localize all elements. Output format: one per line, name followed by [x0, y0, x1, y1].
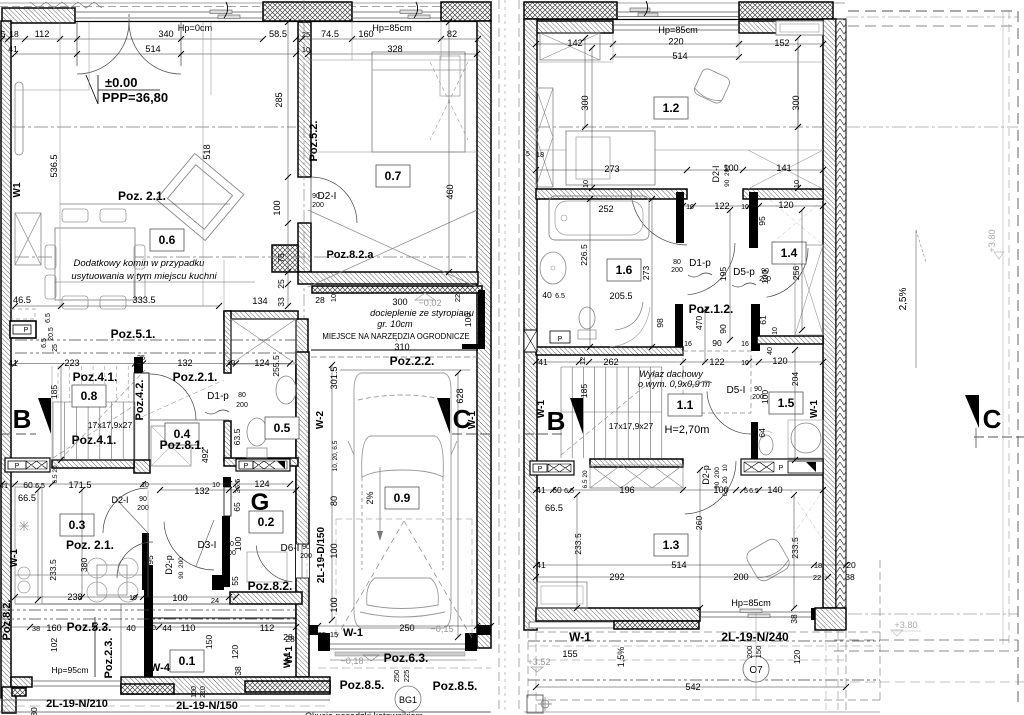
svg-text:6.5: 6.5: [41, 338, 48, 348]
svg-text:200: 200: [745, 646, 754, 659]
bath 1.6 right wall lower bar: [675, 304, 683, 355]
svg-text:100: 100: [172, 593, 187, 603]
svg-text:98: 98: [655, 318, 665, 328]
svg-text:132: 132: [177, 358, 192, 368]
room 0.7 dim line 460: [448, 22, 450, 272]
svg-text:Poz. 2.1.: Poz. 2.1.: [118, 189, 166, 203]
svg-text:41: 41: [8, 44, 18, 54]
right exterior wall of left building: [477, 21, 491, 648]
svg-text:0.8: 0.8: [81, 389, 98, 403]
svg-text:90: 90: [712, 338, 722, 348]
roof plan dashed outline right side: [848, 10, 1018, 12]
svg-text:141: 141: [776, 163, 791, 173]
roof edge lines above right plan: [524, 2, 845, 4]
dim 542: [536, 686, 846, 688]
room 0.1 left wall W-4: [144, 565, 153, 677]
svg-text:492: 492: [200, 449, 210, 464]
svg-text:233.5: 233.5: [48, 559, 58, 581]
svg-text:255.5: 255.5: [271, 355, 281, 377]
svg-text:223: 223: [64, 358, 79, 368]
dim row y206 right: [683, 205, 823, 207]
svg-text:90 200: 90 200: [724, 165, 731, 187]
svg-text:22: 22: [453, 294, 462, 302]
bath 0.5 toilet: [247, 418, 267, 446]
door D1-p threshold: [150, 419, 229, 421]
stair dashed diagonals: [53, 405, 135, 458]
svg-text:110: 110: [181, 623, 196, 633]
svg-text:BG1: BG1: [399, 695, 417, 705]
door D2-I kitchen arc: [103, 488, 148, 533]
top wall window zone 2: [352, 11, 441, 13]
X marks right wall room 1.2: [748, 150, 823, 189]
tool area crosshatch top band: [312, 286, 482, 293]
svg-text:120: 120: [778, 200, 793, 210]
door D2-I opening room 1.2: [631, 189, 687, 245]
bottom left small box right plan: [527, 695, 543, 713]
svg-text:120: 120: [230, 645, 240, 660]
roof bottom right dashed region: [848, 613, 1018, 615]
svg-text:10: 10: [722, 464, 729, 472]
kitchen counter 0.3 left: [15, 487, 42, 604]
bath 0.5 left wall upper: [224, 311, 231, 373]
svg-text:124: 124: [254, 358, 269, 368]
car in garage: [348, 373, 457, 628]
section axis y127 left plan: [11, 126, 296, 128]
window sill box room 1.2 right: [776, 21, 823, 35]
svg-text:112: 112: [260, 623, 275, 633]
living room vertical dim lines: [59, 22, 61, 306]
svg-text:60: 60: [552, 485, 562, 495]
svg-text:W1: W1: [12, 182, 23, 197]
garage floor slope arrow: [379, 467, 381, 538]
svg-text:10: 10: [148, 625, 156, 632]
svg-text:514: 514: [671, 560, 686, 570]
toilet 1.5: [759, 435, 773, 455]
stair hall bottom wall: [590, 459, 683, 467]
svg-text:D2-I: D2-I: [711, 165, 721, 182]
svg-text:20: 20: [582, 470, 589, 478]
svg-text:2%: 2%: [365, 491, 375, 504]
bath 0.5 left wall lower: [224, 421, 231, 461]
bottom-left corner step: [2, 687, 16, 713]
svg-text:2,5%: 2,5%: [898, 287, 909, 310]
svg-text:W-1: W-1: [282, 652, 292, 668]
svg-text:10: 10: [212, 482, 220, 489]
svg-text:−0,15: −0,15: [430, 624, 453, 634]
bath 0.5 sink oval: [276, 376, 296, 404]
svg-text:D5-p: D5-p: [733, 267, 755, 278]
svg-text:0.7: 0.7: [385, 169, 402, 183]
svg-text:30: 30: [29, 707, 39, 715]
svg-text:Poz.1.2.: Poz.1.2.: [689, 302, 734, 316]
Poz.2.3 left wall thin: [94, 617, 96, 677]
svg-text:220: 220: [668, 37, 683, 47]
dims left mid row: [15, 305, 219, 307]
top wall crosshatch block 1: [263, 2, 352, 21]
svg-text:64: 64: [757, 428, 767, 438]
room box 1.4: [772, 242, 806, 264]
right plan 1.3 dim verticals: [576, 495, 578, 608]
dim row y565: [536, 564, 846, 566]
svg-text:200: 200: [733, 572, 748, 582]
right plan inner top wall right: [739, 21, 823, 33]
dim row under 1.2: [536, 169, 823, 171]
stairs dashed diagonal right plan: [561, 372, 662, 455]
svg-text:Poz.4.2.: Poz.4.2.: [134, 380, 146, 421]
room box 1.6: [607, 259, 641, 281]
svg-text:185: 185: [579, 384, 589, 399]
svg-text:10: 10: [581, 180, 590, 188]
bath 0.5 top wall: [224, 311, 298, 319]
svg-text:Hp=85cm: Hp=85cm: [731, 598, 771, 608]
right plan right exterior wall: [823, 19, 836, 608]
wall band W-1 with windows right side: [741, 459, 823, 475]
svg-text:P: P: [24, 327, 29, 334]
section axis living room: [15, 256, 477, 258]
svg-text:18: 18: [9, 29, 19, 39]
room box 0.9 garage: [385, 487, 419, 509]
svg-text:75: 75: [276, 253, 286, 263]
svg-text:80: 80: [329, 496, 339, 506]
svg-text:95: 95: [757, 216, 767, 226]
dining table: [55, 228, 135, 300]
top wall crosshatch block 2: [441, 2, 491, 21]
svg-text:200: 200: [300, 553, 312, 560]
svg-text:90: 90: [312, 193, 320, 200]
right plan top window zone: [617, 11, 739, 13]
svg-text:90: 90: [718, 324, 728, 334]
svg-text:100: 100: [760, 390, 770, 405]
svg-text:142: 142: [567, 38, 582, 48]
stair upper flight dashed treads: [57, 366, 59, 402]
svg-text:260: 260: [694, 516, 704, 531]
svg-text:6.5: 6.5: [564, 488, 574, 495]
svg-text:Poz.8.1.: Poz.8.1.: [160, 438, 205, 452]
svg-text:18: 18: [814, 561, 822, 570]
svg-text:Poz.2.1.: Poz.2.1.: [173, 370, 218, 384]
under stairs X storage: [590, 465, 683, 488]
svg-text:Wyłaz dachowy: Wyłaz dachowy: [639, 369, 704, 379]
svg-text:MIEJSCE NA NARZĘDZIA OGRODNICZ: MIEJSCE NA NARZĘDZIA OGRODNICZE: [322, 332, 469, 341]
svg-text:380: 380: [79, 558, 89, 573]
svg-text:0.2: 0.2: [258, 515, 275, 529]
dashed lines between plans: [498, 0, 500, 712]
svg-text:1.2: 1.2: [663, 101, 680, 115]
svg-text:2L-19-N/150: 2L-19-N/150: [176, 700, 238, 712]
window P box 1.6 left wall: [529, 423, 531, 425]
svg-text:Poz.8.2.: Poz.8.2.: [248, 579, 293, 593]
wall below room 1.2 right part: [743, 189, 823, 199]
kitchen counter bottom band: [15, 574, 145, 576]
svg-text:Poz.6.3.: Poz.6.3.: [384, 651, 429, 665]
svg-text:160: 160: [358, 29, 373, 39]
svg-text:20.5: 20.5: [48, 327, 55, 341]
svg-text:226.5: 226.5: [579, 244, 589, 266]
svg-text:160: 160: [46, 623, 61, 633]
svg-text:D3-I: D3-I: [198, 540, 217, 551]
lower rooms right wall: [296, 352, 309, 677]
bottom wall window crosshatch 2: [245, 681, 330, 692]
svg-text:P: P: [558, 336, 563, 343]
svg-text:28: 28: [285, 634, 295, 644]
svg-text:Hp=95cm: Hp=95cm: [51, 665, 88, 675]
kitchen dim row y597: [15, 596, 236, 598]
room 0.1 top wall: [153, 617, 296, 619]
P window left wall bath: [524, 330, 537, 352]
svg-text:2L-19-N/210: 2L-19-N/210: [46, 698, 108, 710]
svg-text:225: 225: [402, 670, 411, 683]
room box 0.4: [165, 423, 199, 445]
svg-text:300: 300: [791, 95, 801, 110]
svg-text:470: 470: [694, 316, 704, 331]
svg-text:10: 10: [792, 180, 801, 188]
svg-text:38: 38: [845, 572, 855, 582]
garage door opening lines: [330, 643, 465, 645]
svg-text:Poz.5.3.: Poz.5.3.: [67, 620, 112, 634]
crosshair bottom: [541, 700, 549, 708]
svg-text:252: 252: [598, 204, 613, 214]
svg-text:Poz.5.1.: Poz.5.1.: [111, 327, 156, 341]
svg-text:40: 40: [767, 347, 774, 355]
roof dash-dot mid extends section axis: [846, 126, 1018, 128]
svg-text:65: 65: [232, 502, 242, 512]
window P box left wall: [10, 321, 36, 338]
svg-text:233.5: 233.5: [573, 533, 583, 555]
right plan left exterior wall: [524, 19, 537, 630]
svg-text:310: 310: [394, 342, 409, 352]
svg-text:25: 25: [52, 344, 59, 352]
wall below room 1.2 left part: [536, 189, 687, 199]
rotated armchair sofa: [156, 153, 244, 240]
shaft X box: [231, 319, 296, 364]
svg-text:205.5: 205.5: [610, 291, 633, 301]
svg-text:46.5: 46.5: [13, 295, 31, 305]
room box 1.5: [769, 392, 803, 414]
bath 0.4 bottom wall band: [52, 460, 134, 468]
svg-text:63.5: 63.5: [232, 428, 242, 445]
dim row right plan top: [536, 43, 823, 45]
chimney crosshatch block: [272, 245, 298, 272]
svg-text:C: C: [983, 404, 1002, 434]
top wall sliding window symbol 2: [400, 10, 422, 14]
bath 1.6 bottom wall: [536, 347, 683, 355]
entrance double door arcs top: [77, 22, 129, 74]
svg-text:150: 150: [204, 635, 214, 650]
svg-text:0.6: 0.6: [159, 233, 176, 247]
washer circle 1.5: [791, 423, 821, 453]
bathtub 1.6: [549, 196, 649, 240]
O7 circle: [743, 656, 769, 682]
room box 0.3: [60, 514, 94, 536]
section C marker left plan: [437, 398, 450, 434]
svg-text:D6-I: D6-I: [281, 543, 300, 554]
svg-text:W-1: W-1: [9, 549, 20, 568]
TV cabinet room 1.3: [537, 582, 587, 608]
terrace below right building: [536, 631, 880, 633]
svg-text:292: 292: [609, 572, 624, 582]
svg-text:542: 542: [685, 682, 700, 692]
svg-text:273: 273: [604, 164, 619, 174]
svg-text:300: 300: [392, 297, 407, 307]
svg-text:328: 328: [387, 44, 402, 54]
svg-text:122: 122: [709, 357, 724, 367]
svg-text:15: 15: [330, 630, 338, 639]
bottom window strip under wall: [529, 622, 614, 628]
svg-text:6.5: 6.5: [45, 313, 52, 323]
kitchen sink symbol: [19, 521, 29, 531]
stair treads left plan: [52, 402, 54, 460]
garage side door opening in W-2 wall: [296, 544, 309, 578]
svg-text:25: 25: [137, 353, 145, 362]
svg-text:gr. 10cm: gr. 10cm: [377, 319, 413, 329]
door D1-p arc: [150, 374, 196, 420]
svg-text:6.5: 6.5: [582, 479, 589, 488]
svg-text:1.5: 1.5: [778, 396, 795, 410]
room 0.2 bottom hatch wall: [230, 592, 302, 604]
svg-text:460: 460: [445, 184, 455, 199]
svg-text:66.5: 66.5: [545, 503, 563, 513]
washbasin 1.6: [540, 252, 566, 284]
svg-text:Poz.8.5.: Poz.8.5.: [340, 678, 385, 692]
corridor right wall lower bar: [751, 304, 760, 351]
room box 1.2: [654, 97, 688, 119]
svg-text:250: 250: [399, 623, 414, 633]
svg-text:262: 262: [603, 357, 618, 367]
right plan top crosshatch band 1: [524, 2, 617, 19]
svg-text:0.3: 0.3: [69, 518, 86, 532]
svg-text:55: 55: [230, 576, 240, 586]
svg-text:132: 132: [194, 486, 209, 496]
svg-text:6.5: 6.5: [749, 488, 759, 495]
bath 0.4 shower: [151, 426, 191, 466]
door D2-p arc room 1.3: [685, 461, 736, 514]
svg-text:W-2: W-2: [315, 411, 326, 430]
svg-text:W-1: W-1: [809, 400, 820, 419]
svg-text:90 200: 90 200: [178, 557, 185, 579]
svg-text:33: 33: [276, 297, 286, 307]
svg-text:PPP=36,80: PPP=36,80: [102, 90, 168, 105]
svg-text:20: 20: [846, 560, 856, 570]
Poz.5.1 corridor dashdot lines: [15, 339, 296, 341]
svg-text:200: 200: [671, 267, 683, 274]
svg-text:−0,18: −0,18: [340, 656, 363, 666]
svg-text:W-1: W-1: [536, 400, 547, 419]
stairs right plan treads: [560, 367, 562, 458]
svg-text:H=2,70m: H=2,70m: [665, 424, 710, 436]
svg-text:25: 25: [318, 630, 326, 639]
right plan 1.6 dim verticals: [589, 199, 591, 347]
wall between living 0.6 and room 0.7: [298, 22, 311, 177]
room box 0.6: [150, 229, 184, 251]
window Hp=85cm room 1.2: [613, 24, 739, 26]
svg-text:250: 250: [392, 670, 401, 683]
svg-text:1,5%: 1,5%: [616, 647, 626, 668]
svg-text:22: 22: [813, 573, 821, 582]
shower corner 1.6: [615, 302, 643, 330]
svg-text:docieplenie ze styropianu: docieplenie ze styropianu: [370, 308, 474, 318]
svg-text:P: P: [244, 463, 249, 470]
dim row y484 lower: [2, 483, 290, 485]
top wall window zone left: [75, 11, 263, 13]
garage door dashed swing: [336, 521, 404, 638]
svg-text:0.5: 0.5: [274, 421, 291, 435]
svg-text:Poz.8.2.: Poz.8.2.: [1, 600, 13, 641]
kitchen dim verticals: [37, 490, 39, 600]
svg-text:28: 28: [315, 295, 325, 305]
window P box stair hall: [530, 461, 574, 475]
bottom window room 1.3: [700, 611, 815, 613]
radiator along left wall: [15, 82, 23, 155]
svg-text:5: 5: [1, 29, 6, 39]
svg-text:D1-p: D1-p: [689, 258, 711, 269]
svg-text:514: 514: [672, 51, 687, 61]
svg-text:0.9: 0.9: [394, 491, 411, 505]
svg-text:P: P: [779, 465, 784, 472]
room 1.3 bottom wall: [536, 608, 700, 621]
armchair room 1.3: [744, 536, 792, 583]
svg-text:5: 5: [744, 488, 748, 495]
svg-text:210: 210: [200, 686, 207, 698]
axis dashdot through wall 0.6/0.7: [303, 0, 305, 330]
wardrobe X-box left wall: [15, 213, 41, 265]
svg-text:10, 20, 6.5: 10, 20, 6.5: [332, 440, 339, 471]
svg-text:150: 150: [754, 646, 763, 659]
svg-text:152: 152: [774, 38, 789, 48]
roof edge lines above left plan: [0, 2, 491, 4]
svg-text:+3.80: +3.80: [987, 229, 997, 252]
svg-text:171.5: 171.5: [69, 480, 92, 490]
hall wall bar lower: [222, 516, 230, 587]
svg-text:514: 514: [145, 44, 160, 54]
bottom wall window crosshatch 1: [121, 684, 174, 694]
svg-text:10: 10: [329, 294, 338, 302]
svg-text:20: 20: [478, 623, 488, 633]
svg-text:134: 134: [252, 296, 267, 306]
svg-text:1.6: 1.6: [616, 263, 633, 277]
hall wall bar upper: [223, 477, 231, 487]
svg-text:25: 25: [276, 279, 286, 289]
svg-text:Poz.2.3.: Poz.2.3.: [103, 638, 115, 679]
dim line 285-100-75 near wall 0.7: [287, 22, 289, 306]
svg-text:122: 122: [714, 201, 729, 211]
door D5-I arc 1.5: [707, 392, 751, 435]
corridor right wall upper bar: [749, 192, 758, 248]
garage bottom step walls: [296, 625, 318, 635]
svg-text:36.5: 36.5: [233, 479, 242, 494]
svg-text:61: 61: [758, 315, 768, 325]
room box 0.8: [72, 385, 106, 407]
svg-text:Poz.4.1.: Poz.4.1.: [73, 370, 118, 384]
svg-text:196: 196: [619, 485, 634, 495]
svg-text:185: 185: [49, 385, 59, 400]
svg-text:B: B: [13, 404, 32, 434]
svg-text:1.3: 1.3: [663, 538, 680, 552]
svg-text:Hp=0cm: Hp=0cm: [178, 23, 213, 33]
garage dim lines: [331, 365, 333, 620]
svg-text:124: 124: [254, 479, 269, 489]
svg-text:17x17,9x27: 17x17,9x27: [609, 421, 654, 431]
wall between 1.4 and 1.5: [757, 336, 823, 344]
top wall sliding window symbol 1: [210, 10, 232, 14]
svg-text:256: 256: [791, 266, 801, 281]
svg-text:195: 195: [718, 267, 728, 282]
svg-text:16: 16: [741, 341, 749, 348]
svg-text:Hp=85cm: Hp=85cm: [372, 23, 412, 33]
bed room 1.2: [566, 131, 655, 185]
svg-text:518: 518: [202, 144, 212, 159]
kitchen hob circles: [18, 581, 30, 593]
svg-text:100: 100: [329, 597, 339, 612]
